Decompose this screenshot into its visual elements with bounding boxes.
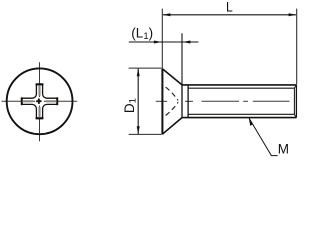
thread root top line: [188, 87, 294, 89]
recess center cross (filled plus): [36, 99, 41, 104]
recess arm interior gray band bottom: [38, 107, 40, 118]
(L1) arrow pointing left at junction line: [182, 41, 190, 44]
side view: dashed centerline of shaft: [156, 100, 290, 102]
phillips recess outline: [22, 84, 57, 119]
svg-text:(L1): (L1): [131, 25, 153, 41]
L dimension line: [163, 14, 296, 16]
recess tip cap bottom: [36, 117, 44, 119]
end view: horizontal centerline: [2, 100, 78, 102]
L dimension: right extension line (shaft end extended): [296, 9, 298, 85]
end view: vertical centerline: [39, 62, 41, 141]
L dimension: left extension line (head face extended): [161, 9, 163, 69]
M leader arrowhead: [249, 118, 253, 126]
D1 dimension: top extension line: [129, 67, 162, 69]
(L1) dimension: extension line above junction: [181, 33, 183, 85]
M leader line: [249, 118, 278, 156]
hidden recess line upper (dashed): [165, 86, 179, 100]
head face (left vertical line of side view): [161, 69, 163, 135]
end chamfer line: [293, 88, 295, 114]
end chamfer corner diagonal top: [294, 85, 296, 88]
L left arrowhead: [162, 13, 170, 16]
L right arrowhead: [289, 13, 297, 16]
recess tip cap top: [36, 84, 44, 86]
D1 dimension: bottom extension line: [129, 133, 162, 135]
(L1) arrow pointing right at head face: [154, 41, 162, 44]
D1 dimension line: [137, 69, 139, 134]
D1 bottom arrowhead: [137, 126, 140, 134]
thread root bottom line: [188, 113, 294, 115]
hidden recess line lower (dashed): [165, 102, 179, 116]
head-shank junction vertical: [181, 85, 183, 118]
head taper bottom edge: [162, 118, 182, 135]
recess arm interior gray band top: [38, 85, 40, 96]
recess tip cap left: [21, 97, 23, 105]
D1 top arrowhead: [137, 68, 140, 76]
end chamfer corner diagonal bottom: [294, 114, 296, 117]
recess arm interior gray band left: [22, 100, 33, 102]
shaft end face: [295, 85, 297, 118]
recess arm interior gray band right: [46, 100, 57, 102]
shaft outer top line: [182, 84, 296, 86]
thread runout vertical: [187, 85, 189, 118]
head taper top edge: [162, 69, 182, 85]
svg-text:L: L: [226, 0, 233, 14]
recess tip cap right: [56, 97, 58, 105]
head circle (end view outline): [7, 68, 73, 134]
shaft outer bottom line: [182, 117, 296, 119]
(L1) dimension line with outside arrows: [129, 41, 199, 43]
svg-text:M: M: [278, 141, 289, 156]
